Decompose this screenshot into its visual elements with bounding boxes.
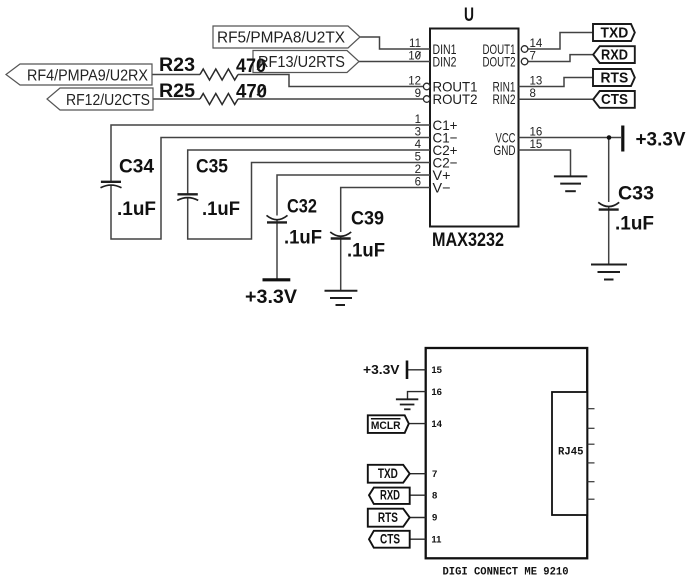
svg-text:ROUT2: ROUT2 [433,91,478,107]
svg-text:.1uF: .1uF [615,214,654,235]
svg-text:.1uF: .1uF [202,199,240,220]
svg-text:RXD: RXD [380,488,400,503]
svg-text:13: 13 [530,76,543,88]
svg-text:C32: C32 [287,197,317,218]
svg-text:.1uF: .1uF [117,199,156,220]
svg-text:RF5/PMPA8/U2TX: RF5/PMPA8/U2TX [217,30,346,47]
svg-text:14: 14 [431,419,442,430]
svg-text:DOUT2: DOUT2 [483,54,516,70]
svg-text:C39: C39 [351,209,384,230]
svg-text:R23: R23 [159,55,195,76]
svg-text:8: 8 [530,88,536,100]
svg-text:14: 14 [530,38,543,50]
svg-text:V−: V− [433,180,451,196]
svg-text:9: 9 [432,513,437,524]
svg-text:TXD: TXD [378,466,398,481]
svg-text:+3.3V: +3.3V [363,362,400,377]
svg-text:3: 3 [415,127,421,139]
svg-text:RTS: RTS [378,510,398,525]
svg-text:C35: C35 [196,157,228,178]
svg-text:DIN2: DIN2 [433,54,457,70]
svg-text:DIGI CONNECT ME 9210: DIGI CONNECT ME 9210 [443,566,569,578]
svg-text:CTS: CTS [601,91,628,108]
svg-text:R25: R25 [159,81,195,102]
svg-text:7: 7 [432,469,437,480]
svg-text:MCLR: MCLR [371,420,401,432]
svg-text:C34: C34 [119,157,154,178]
svg-text:15: 15 [431,365,442,376]
svg-text:8: 8 [432,490,437,501]
svg-text:6: 6 [415,177,421,189]
svg-text:RF13/U2RTS: RF13/U2RTS [258,54,345,71]
svg-text:TXD: TXD [601,24,629,41]
svg-text:16: 16 [530,127,543,139]
svg-text:+3.3V: +3.3V [636,130,686,151]
svg-text:9: 9 [415,88,421,100]
svg-text:15: 15 [530,139,543,151]
svg-text:+3.3V: +3.3V [245,287,297,308]
svg-text:1: 1 [415,114,421,126]
svg-text:16: 16 [431,387,442,398]
svg-text:RXD: RXD [601,47,628,64]
svg-text:RIN2: RIN2 [493,91,516,107]
svg-text:7: 7 [530,51,536,63]
svg-text:U: U [464,5,474,26]
svg-text:10: 10 [408,51,421,63]
svg-text:11: 11 [431,534,442,545]
svg-text:.1uF: .1uF [284,228,322,249]
svg-text:RF4/PMPA9/U2RX: RF4/PMPA9/U2RX [27,68,149,85]
svg-text:12: 12 [408,76,421,88]
svg-text:4: 4 [415,139,422,151]
svg-text:2: 2 [415,164,421,176]
svg-text:MAX3232: MAX3232 [432,230,504,251]
svg-text:RTS: RTS [601,69,629,86]
svg-text:.1uF: .1uF [347,241,385,262]
svg-text:470: 470 [236,82,267,103]
svg-text:11: 11 [409,38,421,50]
svg-text:CTS: CTS [380,532,400,547]
svg-text:5: 5 [415,152,421,164]
svg-text:GND: GND [494,142,516,158]
svg-text:C33: C33 [618,184,654,205]
svg-text:RF12/U2CTS: RF12/U2CTS [66,92,150,109]
svg-text:RJ45: RJ45 [558,447,584,459]
